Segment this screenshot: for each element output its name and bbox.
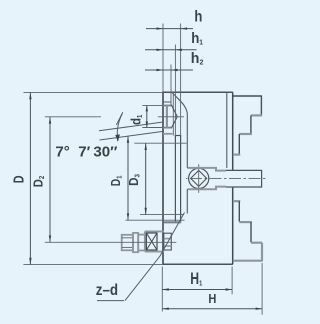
extension line D1 bottom: [126, 219, 185, 221]
wedge nut grey bar: [166, 106, 168, 128]
screw channel left wall: [174, 136, 176, 222]
screw channel top edge: [175, 135, 181, 137]
dimension line D2: [49, 117, 51, 243]
dimension line d1: [146, 105, 148, 127]
svg-text:D: D: [10, 175, 27, 183]
screw right block grey line bottom: [164, 245, 172, 247]
wedge nut top edge: [163, 105, 172, 107]
angle extension tick: [116, 112, 122, 125]
extension line d1 top: [142, 104, 163, 106]
screw neck: [138, 235, 146, 251]
screw channel bottom bar: [164, 221, 182, 223]
screw head grey housing top: [145, 230, 164, 232]
arrow h right: [181, 27, 188, 29]
guideway grey segment: [163, 133, 173, 135]
wedge nut point: [171, 105, 177, 128]
dimension line h1: [145, 49, 197, 51]
pinion square socket (diamond): [191, 170, 207, 186]
bottom jaw riser 1: [238, 201, 240, 222]
arrow D1 bottom: [127, 213, 129, 220]
angle arc: [117, 114, 122, 142]
screw collar: [133, 233, 138, 252]
guideway upper sloped line: [99, 122, 163, 131]
extension line above back face for h dims: [162, 24, 164, 93]
screw head square: [146, 233, 157, 250]
z-d leader underline: [97, 300, 124, 302]
arrow D3 top: [145, 143, 147, 150]
screw right block grey line top: [164, 238, 172, 240]
screw head grey housing left: [144, 231, 146, 251]
extension line D top: [23, 91, 163, 93]
bottom jaw bottom edge: [233, 260, 263, 262]
dimension line H1: [162, 289, 232, 291]
arrow H right: [256, 308, 263, 310]
chuck body front face lower: [232, 187, 234, 264]
arrow D2 top: [49, 117, 51, 124]
screw head grey housing bottom: [145, 251, 164, 253]
chuck body bottom edge: [163, 263, 233, 265]
extension line h1 right: [174, 45, 176, 136]
extension line D3 top: [134, 142, 186, 144]
extension line D2 top: [45, 116, 101, 118]
dimension line D3: [145, 143, 147, 214]
top jaw riser 3: [238, 134, 240, 154]
thread inner line top: [122, 237, 133, 239]
bottom jaw tread 1: [233, 200, 240, 202]
front recess internal line: [226, 92, 228, 168]
extension line d1 bottom: [142, 127, 163, 129]
wrench socket hole outline: [226, 170, 262, 187]
arrow d1 bottom: [146, 122, 148, 128]
extension line h2 right: [170, 65, 172, 106]
screw head cross diagonal 1: [146, 233, 157, 250]
dimension line h: [146, 28, 193, 30]
z-d leader line: [125, 213, 185, 301]
arrow D bottom: [29, 258, 31, 265]
wedge nut bottom edge: [163, 127, 172, 129]
guideway lower sloped line: [100, 131, 164, 140]
top jaw tread 4: [233, 154, 240, 156]
svg-text:H: H: [208, 291, 216, 306]
arrow D2 bottom: [49, 236, 51, 243]
thread inner line bottom: [122, 246, 133, 248]
svg-text:h: h: [194, 9, 202, 26]
H1 extension left / H shared (back face extended down): [161, 267, 163, 312]
screw right block: [164, 233, 172, 250]
pinion vertical centerline: [198, 164, 200, 193]
chuck body back face (thick vertical): [162, 92, 164, 265]
bottom jaw tread 2: [239, 221, 252, 223]
bottom jaw riser 3: [261, 243, 263, 261]
chuck body front face upper: [232, 92, 234, 170]
svg-text:7° 7′ 30″: 7° 7′ 30″: [55, 144, 117, 161]
top jaw riser 1: [260, 95, 262, 115]
jaw boss line bottom: [186, 189, 188, 213]
screw head cross diagonal 2: [146, 233, 157, 250]
arrow h2 left: [157, 69, 164, 71]
jaw boss fillet curve top: [172, 92, 187, 168]
arrow h left: [157, 27, 164, 29]
dimension line D1: [127, 136, 129, 220]
screw axis centerline and D2 lower extension: [45, 241, 177, 243]
arrow H left: [162, 308, 169, 310]
arrow D top: [29, 92, 31, 99]
bottom jaw riser 2: [250, 222, 252, 242]
extension line h right: [180, 24, 182, 136]
clamping screw thread section: [122, 235, 133, 251]
svg-text:z–d: z–d: [96, 282, 118, 299]
dimension line D: [29, 92, 31, 264]
bottom jaw tread 3: [251, 242, 262, 244]
extension line D bottom: [23, 264, 163, 266]
arrow H1 left: [162, 288, 169, 290]
wedge screw centerline: [158, 116, 184, 118]
top jaw tread 1: [233, 95, 262, 97]
pinion boss top outline: [187, 168, 226, 171]
angle arc arrowhead: [115, 134, 120, 141]
jaw slot side wall: [172, 92, 174, 135]
screw channel right wall: [180, 136, 182, 222]
dimension line h2: [145, 69, 193, 71]
extension line D3 bottom: [140, 214, 184, 216]
arrow h2 right: [171, 69, 178, 71]
H extension right: [261, 263, 263, 315]
arrow D3 bottom: [145, 208, 147, 215]
pinion horizontal centerline (dash-dot): [186, 177, 266, 179]
top jaw tread 2: [251, 114, 262, 116]
jaw slot top line: [163, 101, 171, 103]
pinion boss bottom outline: [187, 187, 226, 190]
top jaw tread 3: [239, 133, 252, 135]
arrow h1 left: [157, 49, 164, 51]
arrow H1 right: [226, 288, 233, 290]
pinion circle: [189, 168, 209, 188]
H1 extension right: [231, 267, 233, 295]
top jaw riser 2: [250, 115, 252, 133]
arrow h1 right: [175, 49, 182, 51]
arrow D1 top: [127, 136, 129, 143]
chuck body top edge: [163, 91, 233, 93]
arrow d1 top: [146, 105, 148, 111]
dimension line H: [162, 308, 262, 310]
